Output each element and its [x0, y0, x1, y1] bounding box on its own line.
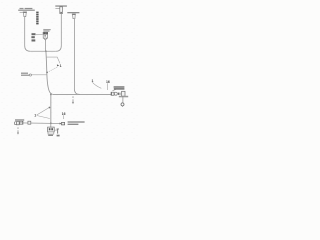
horizontal harness H3 (bottom) — [20, 122, 60, 125]
label L3 (connector T3 label) — [67, 12, 79, 13]
connector T1 (top-left plug) — [20, 12, 27, 17]
trunk W5b (continues down) — [50, 94, 52, 123]
dashed arrow A1 (below T4) — [17, 127, 19, 134]
label L6 (2 lines, right of box) — [68, 121, 85, 125]
horizontal harness H1 — [30, 50, 56, 52]
junction J3 (dot on trunk) — [49, 107, 51, 109]
wire W3 (from T3 down, curve right into H2) — [74, 19, 80, 95]
wire W4 (device to H1) — [45, 40, 47, 51]
pin list text stack V1 — [36, 12, 38, 25]
label L5 (ring terminal label, 2 lines) — [113, 86, 125, 90]
horizontal harness H2 — [52, 93, 111, 95]
device D1 label (2 lines) — [43, 29, 50, 31]
callout CO2 (clip 1, lower wedge) — [34, 108, 50, 119]
connector assembly CA1 — [111, 91, 128, 97]
component C1 (bottom module) — [48, 123, 55, 136]
terminal arrow+box at right end of H3 — [60, 122, 65, 125]
svg-text:1: 1 — [60, 64, 62, 68]
label L4 (left leader label, 2 lines) — [21, 73, 47, 77]
junction J2 (corner at harness) — [50, 94, 52, 96]
svg-text:1: 1 — [34, 113, 36, 117]
connector T4 (bottom-left plug) — [14, 119, 24, 124]
wire color stack V2 (left of device) — [31, 33, 42, 41]
inline connector R1 on H3 — [28, 121, 31, 124]
wire W2 (from T2 down, curve left) — [56, 14, 62, 52]
label L1 (top-left connector label, 2 lines) — [18, 8, 35, 11]
connector T2 — [55, 7, 62, 14]
junction J1 — [45, 50, 47, 52]
ring terminal G1 — [121, 96, 124, 107]
device D1 (sensor with hatched cap) — [43, 32, 48, 40]
svg-text:16: 16 — [106, 80, 110, 84]
trunk W5 (main harness down with slight lean, corner into H2) — [46, 51, 52, 94]
callout 1 (curved leader, right) — [92, 79, 102, 88]
junction J4 — [50, 122, 52, 124]
connector T3 — [72, 14, 76, 19]
svg-text:16: 16 — [62, 112, 66, 116]
callout CO1 (clip 1, upper) — [46, 57, 61, 73]
callout 16 (right) — [106, 80, 110, 90]
dashed arrow A2 (breakout at x=73) — [72, 96, 74, 104]
ground element E1 (right of C1) — [54, 129, 59, 137]
wire W1 (from T1 down, curve right) — [25, 17, 31, 51]
callout 16 (center bottom) — [62, 112, 66, 119]
label L2 (connector T2 label) — [55, 5, 67, 6]
